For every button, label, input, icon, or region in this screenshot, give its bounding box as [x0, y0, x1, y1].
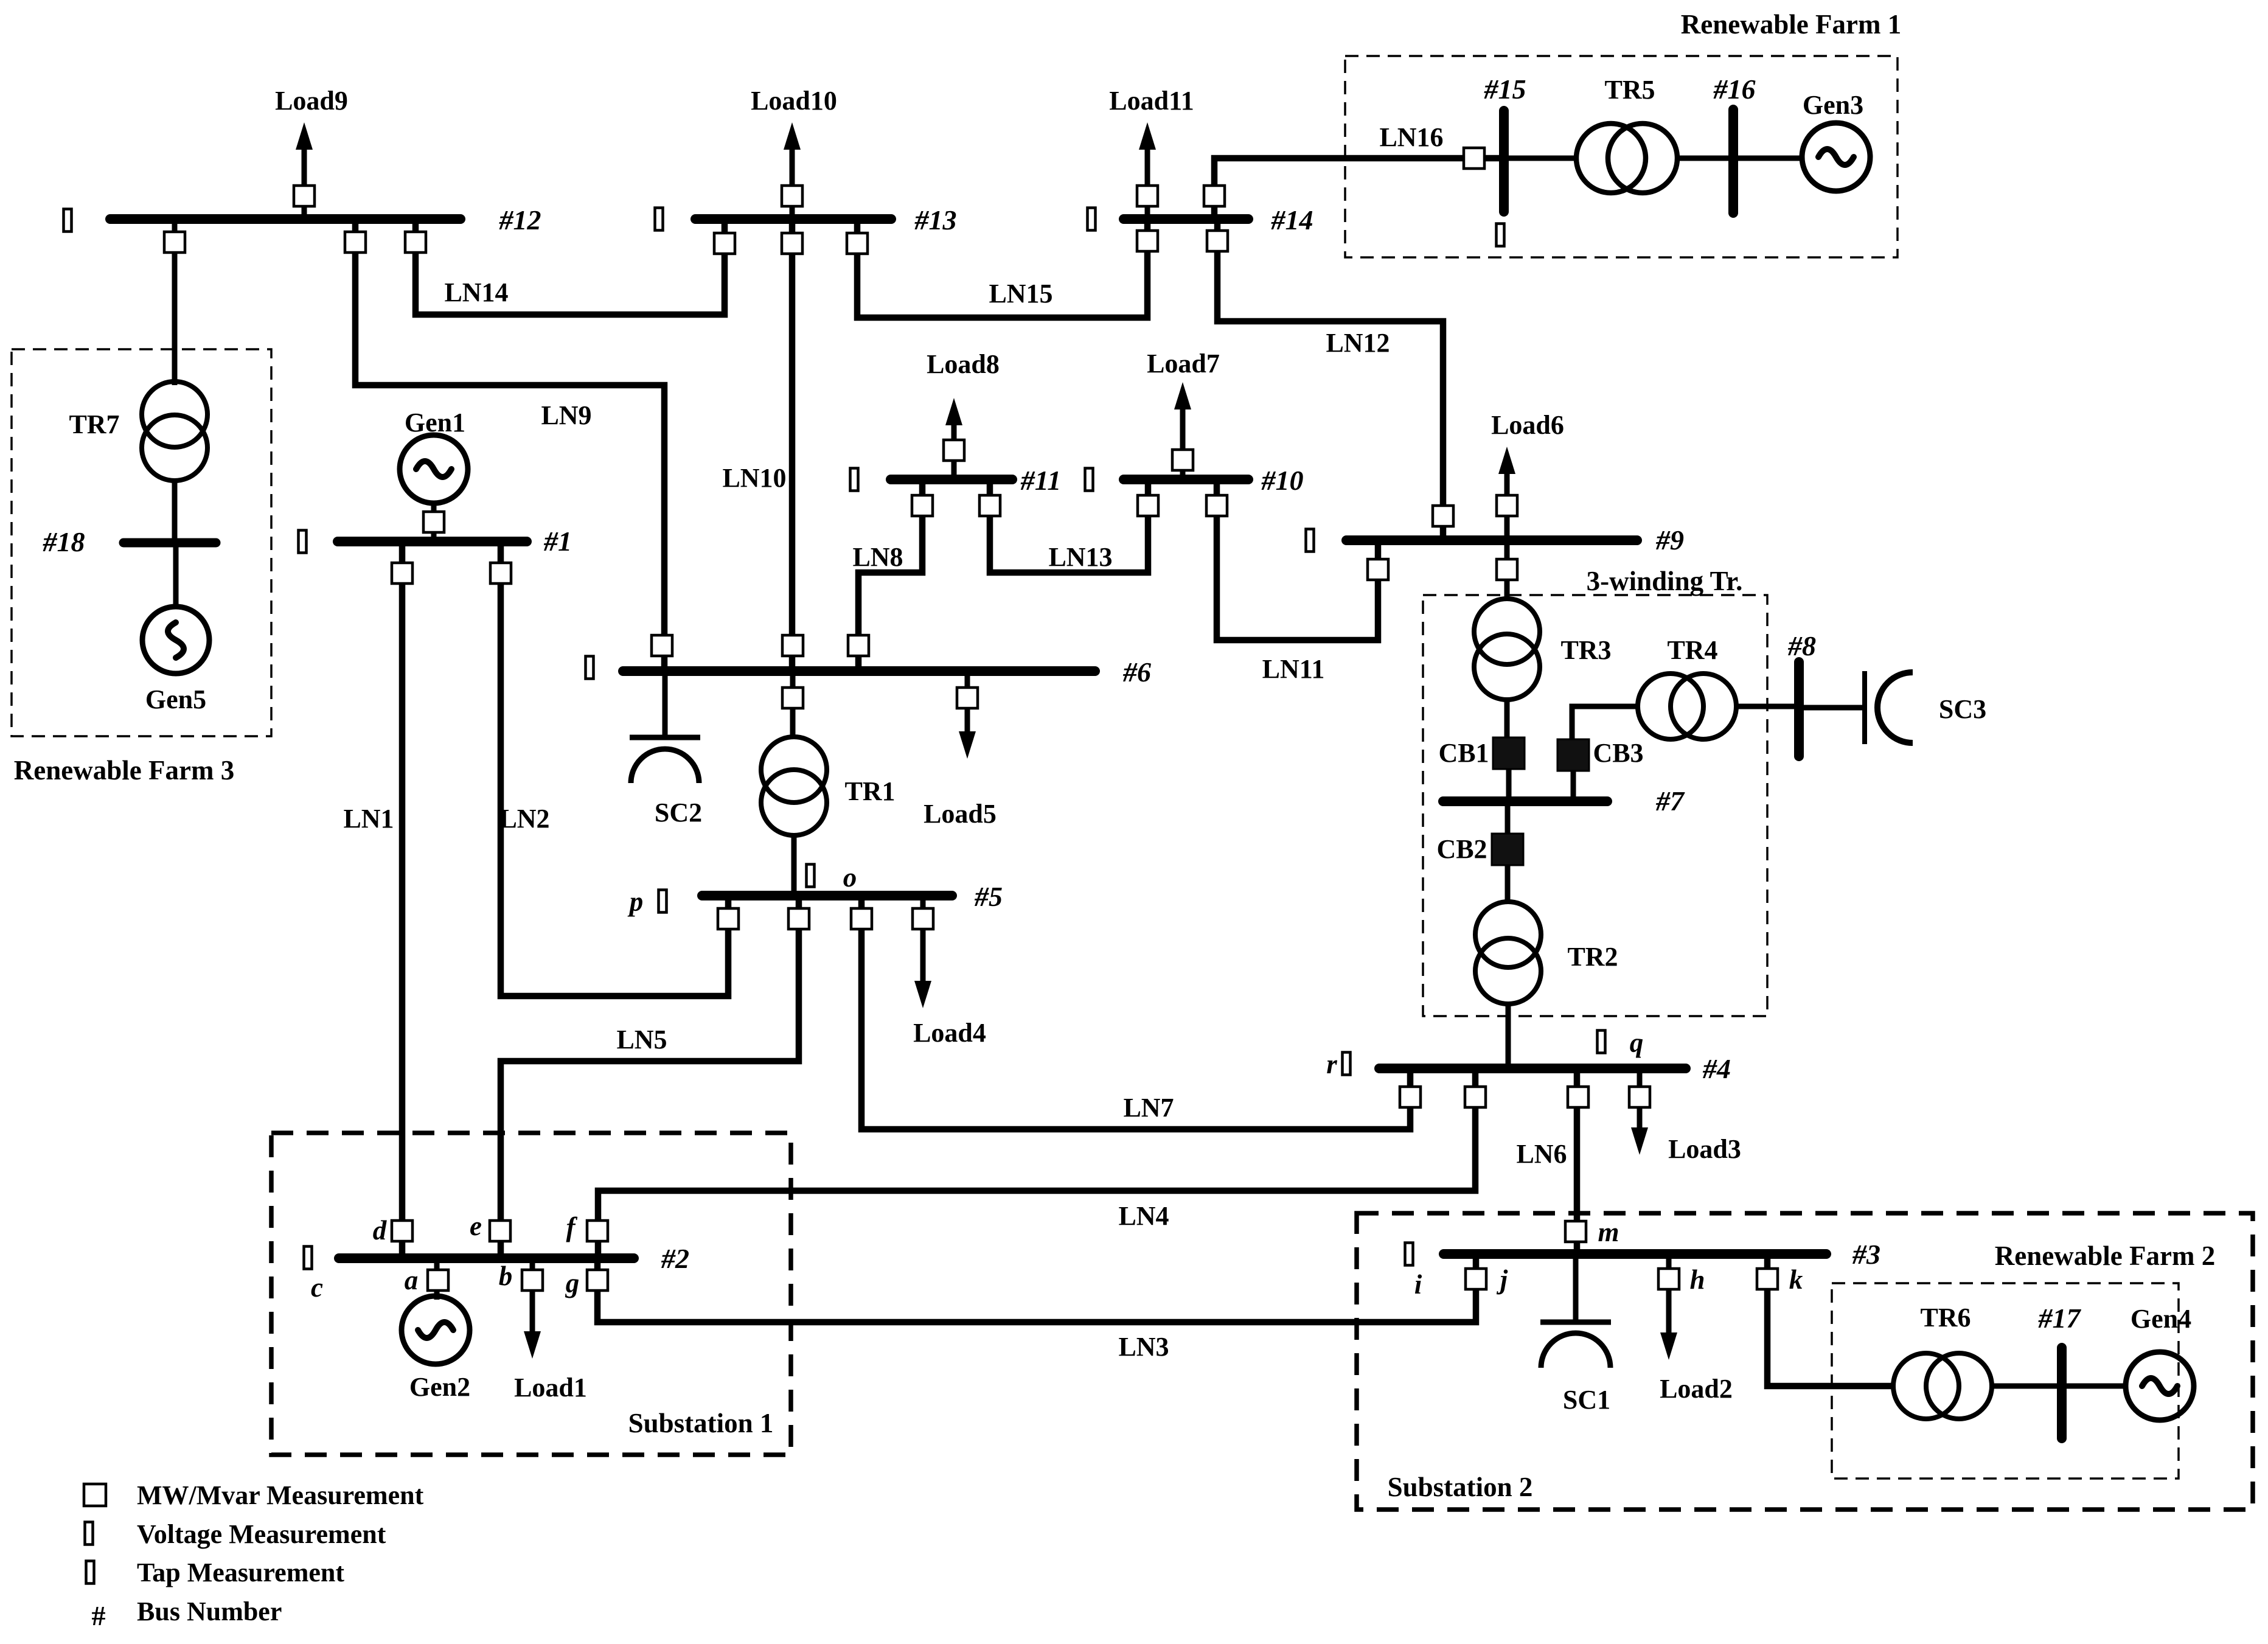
LN7 label — [1123, 1093, 1174, 1123]
circuit breaker CB2 — [1492, 834, 1523, 865]
wire bus17 to Gen4 — [2062, 1384, 2126, 1389]
bus #18 label — [43, 526, 85, 557]
SC1 label — [1563, 1385, 1610, 1415]
Renewable Farm 3 dashed box — [12, 349, 271, 736]
LN4 label — [1118, 1201, 1169, 1231]
wire bus9 to TR3 — [1504, 540, 1510, 601]
wire TR7 to bus 18 — [172, 481, 178, 543]
wire bus16 to Gen3 — [1733, 156, 1802, 161]
load Load2 arrow — [1660, 1254, 1677, 1360]
svg-text:Load3: Load3 — [1668, 1134, 1741, 1164]
MW/Mvar measurement k — [1757, 1269, 1778, 1289]
svg-text:Load4: Load4 — [913, 1018, 986, 1048]
transformer TR6 — [1893, 1353, 1992, 1419]
Load4 label — [913, 1018, 986, 1048]
wire TR5 to bus16 — [1676, 156, 1733, 161]
MW/Mvar measurement bus13 LN15 side — [847, 233, 868, 254]
node label m — [1598, 1217, 1619, 1247]
svg-text:LN1: LN1 — [343, 804, 394, 834]
svg-text:#2: #2 — [661, 1243, 689, 1274]
MW/Mvar measurement bus11 LN13 — [979, 495, 1000, 516]
wire TR1 to bus 5 — [791, 835, 797, 896]
svg-text:LN13: LN13 — [1048, 542, 1112, 572]
bus #4 — [1379, 1064, 1686, 1073]
LN9 label — [541, 400, 591, 430]
MW/Mvar measurement bus4 LN6 — [1568, 1087, 1588, 1107]
svg-text:g: g — [565, 1268, 580, 1298]
bus #7 — [1443, 796, 1607, 806]
node label q — [1630, 1028, 1644, 1058]
wire LN4 — [598, 1068, 1475, 1258]
generator Gen2 — [402, 1296, 470, 1364]
shunt capacitor SC2 — [630, 671, 700, 783]
svg-text:LN8: LN8 — [852, 542, 903, 572]
circuit breaker CB1 — [1493, 737, 1525, 769]
svg-text:Gen4: Gen4 — [2131, 1304, 2191, 1334]
bus #11 label — [1020, 465, 1061, 496]
wire LN2 — [501, 542, 728, 996]
wire Gen1 to square — [431, 502, 437, 542]
voltage measurement at bus 11 — [850, 468, 858, 491]
LN10 label — [722, 463, 786, 493]
MW/Mvar measurement bus13 LN14 side — [714, 233, 735, 254]
svg-text:r: r — [1326, 1049, 1337, 1079]
bus #17 (vertical) — [2057, 1348, 2067, 1438]
svg-text:CB3: CB3 — [1593, 738, 1643, 768]
CB1 label — [1438, 738, 1489, 768]
wire TR6 to bus 17 — [1992, 1384, 2062, 1389]
svg-text:TR6: TR6 — [1920, 1303, 1971, 1332]
bus #2 — [339, 1253, 634, 1263]
bus #12 — [110, 214, 461, 224]
wire k to TR6 — [1767, 1254, 1893, 1386]
svg-text:Substation 1: Substation 1 — [628, 1408, 774, 1438]
wire LN16 — [1214, 158, 1504, 219]
load Load1 arrow — [524, 1258, 541, 1359]
svg-text:h: h — [1689, 1264, 1705, 1295]
Renewable Farm 3 label — [14, 755, 234, 785]
node label d — [373, 1215, 388, 1245]
node label p — [627, 886, 644, 917]
svg-text:#14: #14 — [1271, 204, 1313, 235]
transformer TR7 — [142, 381, 207, 481]
Load7 label — [1147, 349, 1220, 378]
wire LN13 — [990, 479, 1148, 573]
legend bus number text — [137, 1597, 282, 1626]
svg-text:Load7: Load7 — [1147, 349, 1220, 378]
MW/Mvar measurement g — [587, 1270, 608, 1290]
MW/Mvar measurement e — [490, 1221, 510, 1241]
svg-text:Gen3: Gen3 — [1803, 90, 1863, 120]
MW/Mvar measurement b — [522, 1270, 543, 1290]
load Load6 arrow — [1498, 447, 1515, 540]
svg-text:CB2: CB2 — [1436, 834, 1487, 864]
legend voltage text — [137, 1519, 386, 1549]
svg-text:LN2: LN2 — [499, 804, 549, 834]
svg-text:Renewable Farm 1: Renewable Farm 1 — [1681, 9, 1901, 40]
bus #6 — [623, 666, 1095, 676]
svg-text:Load11: Load11 — [1109, 86, 1194, 116]
bus #6 label — [1122, 657, 1151, 688]
wire CB1 to bus 7 — [1506, 769, 1512, 801]
svg-text:LN7: LN7 — [1123, 1093, 1174, 1123]
bus #15 label — [1484, 74, 1526, 105]
LN16 label — [1379, 122, 1443, 152]
svg-text:#10: #10 — [1261, 465, 1304, 496]
MW/Mvar measurement bus9 3winding — [1497, 559, 1517, 580]
node label e — [470, 1211, 482, 1241]
wire LN12 — [1217, 219, 1443, 540]
MW/Mvar measurement bus10 LN11 — [1206, 495, 1227, 516]
generator Gen5 — [142, 607, 209, 674]
3-winding Tr. label — [1587, 566, 1743, 596]
bus #13 label — [914, 204, 957, 235]
load Load7 arrow — [1174, 382, 1191, 479]
MW/Mvar measurement bus13 LN10 — [782, 233, 802, 254]
svg-text:SC3: SC3 — [1939, 694, 1986, 724]
LN14 label — [444, 277, 508, 307]
LN2 label — [499, 804, 549, 834]
svg-text:p: p — [627, 886, 644, 917]
bus #8 (vertical) — [1794, 662, 1804, 756]
shunt capacitor SC1 — [1540, 1254, 1611, 1368]
transformer TR3 — [1474, 599, 1540, 700]
svg-text:Voltage Measurement: Voltage Measurement — [137, 1519, 386, 1549]
node label g — [565, 1268, 580, 1298]
MW/Mvar measurement on Load11 — [1137, 186, 1158, 206]
tap measurement below bus 15 — [1497, 224, 1504, 246]
legend bus number symbol — [92, 1600, 106, 1631]
MW/Mvar measurement bus6 LN9 — [652, 635, 672, 656]
bus #16 label — [1713, 74, 1756, 105]
TR1 label — [844, 776, 895, 806]
3-winding Tr. dashed box — [1423, 595, 1767, 1016]
svg-text:#16: #16 — [1713, 74, 1756, 105]
wire bus18 to Gen5 — [173, 543, 179, 607]
svg-text:LN10: LN10 — [722, 463, 786, 493]
svg-text:q: q — [1630, 1028, 1644, 1058]
LN3 label — [1118, 1332, 1169, 1362]
svg-text:#: # — [92, 1600, 106, 1631]
legend tap rect symbol — [86, 1561, 94, 1584]
svg-text:TR4: TR4 — [1667, 635, 1717, 665]
wire LN8 — [858, 479, 922, 671]
wire CB2 to TR2 — [1505, 865, 1511, 902]
LN12 label — [1326, 328, 1390, 358]
voltage measurement at bus 12 — [64, 209, 72, 232]
node label f — [566, 1212, 578, 1242]
bus #8 label — [1787, 630, 1816, 661]
svg-text:TR7: TR7 — [69, 409, 119, 439]
Load9 label — [275, 86, 348, 116]
Load3 label — [1668, 1134, 1741, 1164]
svg-text:#5: #5 — [974, 881, 1003, 912]
MW/Mvar measurement on Load9 — [294, 186, 315, 206]
MW/Mvar measurement bus5 LN5 — [788, 908, 809, 929]
svg-text:LN9: LN9 — [541, 400, 591, 430]
wire TR4 to CB3 — [1572, 706, 1638, 739]
MW/Mvar measurement on LN16 — [1464, 148, 1484, 169]
bus #12 label — [499, 204, 541, 235]
wire LN14 — [416, 219, 725, 315]
MW/Mvar measurement bus5 LN2 — [718, 908, 739, 929]
transformer TR1 — [761, 737, 827, 835]
load Load11 arrow — [1139, 122, 1156, 219]
tap measurement at TR1 bus5 — [807, 865, 815, 887]
svg-text:#4: #4 — [1702, 1053, 1731, 1084]
svg-text:3-winding Tr.: 3-winding Tr. — [1587, 566, 1743, 596]
node label c — [311, 1272, 323, 1303]
bus #5 label — [974, 881, 1003, 912]
svg-text:Bus Number: Bus Number — [137, 1597, 282, 1626]
svg-text:#17: #17 — [2038, 1303, 2082, 1334]
wire LN10 — [789, 219, 796, 671]
svg-text:#9: #9 — [1655, 524, 1684, 556]
MW/Mvar measurement on Load10 — [782, 186, 802, 206]
TR6 label — [1920, 1303, 1971, 1332]
TR5 label — [1604, 75, 1655, 105]
wire LN3 — [597, 1254, 1476, 1322]
generator Gen4 — [2126, 1352, 2194, 1420]
svg-text:#8: #8 — [1787, 630, 1816, 661]
wire TR2 to bus 4 — [1506, 1004, 1511, 1068]
wire LN9 — [355, 219, 664, 671]
svg-text:Load10: Load10 — [751, 86, 837, 116]
voltage measurement at bus 14 — [1088, 208, 1096, 231]
bus #18 — [123, 538, 216, 548]
Load10 label — [751, 86, 837, 116]
MW/Mvar measurement bus6 LN8 — [848, 635, 869, 656]
node label k — [1789, 1264, 1803, 1295]
bus #16 (vertical) — [1728, 110, 1738, 213]
shunt capacitor SC3 — [1799, 671, 1913, 744]
svg-text:LN3: LN3 — [1118, 1332, 1169, 1362]
node label r — [1326, 1049, 1337, 1079]
generator Gen3 — [1802, 123, 1870, 191]
CB3 label — [1593, 738, 1643, 768]
legend MW/Mvar text — [137, 1480, 424, 1510]
svg-text:Load6: Load6 — [1491, 410, 1564, 440]
TR7 label — [69, 409, 119, 439]
svg-text:d: d — [373, 1215, 388, 1245]
wire LN1 — [399, 542, 406, 1258]
TR3 label — [1560, 635, 1611, 665]
tap measurement at TR2 bus4 — [1598, 1031, 1605, 1053]
node label i — [1414, 1269, 1422, 1300]
MW/Mvar measurement bus1 LN2 — [490, 563, 511, 583]
svg-text:#1: #1 — [543, 526, 572, 557]
legend tap text — [137, 1558, 344, 1587]
MW/Mvar measurement bus1 LN1 — [392, 563, 412, 583]
Renewable Farm 2 dashed box — [1832, 1283, 2179, 1479]
MW/Mvar measurement bus12 LN9 — [345, 232, 366, 253]
bus #4 label — [1702, 1053, 1731, 1084]
legend MW/Mvar square symbol — [84, 1484, 106, 1506]
svg-text:i: i — [1414, 1269, 1422, 1300]
LN11 label — [1262, 654, 1325, 684]
LN15 label — [989, 279, 1052, 308]
LN8 label — [852, 542, 903, 572]
voltage measurement at bus 1 — [299, 531, 307, 553]
Gen5 label — [145, 684, 206, 714]
svg-text:LN12: LN12 — [1326, 328, 1390, 358]
svg-text:#12: #12 — [499, 204, 541, 235]
bus #7 label — [1655, 785, 1685, 817]
wire bus15 to TR5 — [1504, 156, 1578, 161]
MW/Mvar measurement m — [1565, 1221, 1586, 1242]
load Load4 arrow — [914, 896, 931, 1008]
svg-text:Renewable Farm 2: Renewable Farm 2 — [1995, 1241, 2215, 1271]
CB2 label — [1436, 834, 1487, 864]
bus #3 label — [1852, 1239, 1880, 1270]
bus #10 label — [1261, 465, 1304, 496]
MW/Mvar measurement h — [1658, 1269, 1679, 1289]
load Load8 arrow — [945, 398, 962, 479]
load Load5 arrow — [959, 671, 976, 759]
MW/Mvar measurement bus6 TR1 — [782, 688, 803, 708]
Substation 1 label — [628, 1408, 774, 1438]
svg-text:c: c — [311, 1272, 323, 1303]
MW/Mvar measurement Gen1 — [423, 512, 444, 532]
Gen2 label — [409, 1372, 470, 1402]
bus #11 — [891, 475, 1012, 484]
wire bus 12 to TR7 — [172, 219, 178, 385]
LN6 label — [1516, 1139, 1567, 1169]
svg-text:TR5: TR5 — [1604, 75, 1655, 105]
svg-text:b: b — [499, 1261, 513, 1291]
svg-text:LN4: LN4 — [1118, 1201, 1169, 1231]
bus #1 — [338, 537, 527, 546]
Renewable Farm 1 label — [1681, 9, 1901, 40]
MW/Mvar measurement bus11 LN8 — [912, 495, 933, 516]
svg-text:LN16: LN16 — [1379, 122, 1443, 152]
Load8 label — [927, 349, 1000, 379]
MW/Mvar measurement bus9 LN11 — [1368, 559, 1388, 580]
bus #15 (vertical) — [1499, 111, 1509, 212]
transformer TR2 — [1475, 902, 1541, 1004]
wire LN7 — [861, 896, 1410, 1129]
bus #2 label — [661, 1243, 689, 1274]
LN5 label — [616, 1025, 667, 1054]
load Load3 arrow — [1631, 1068, 1648, 1155]
MW/Mvar measurement a — [428, 1270, 448, 1290]
svg-text:Gen5: Gen5 — [145, 684, 206, 714]
MW/Mvar measurement bus12 to TR7 — [164, 232, 185, 253]
MW/Mvar measurement bus12 LN14 — [405, 232, 426, 253]
MW/Mvar measurement bus6 Load5 — [957, 688, 978, 708]
TR2 label — [1567, 942, 1618, 972]
svg-text:m: m — [1598, 1217, 1619, 1247]
voltage measurement at bus 9 — [1306, 529, 1314, 552]
MW/Mvar measurement d — [392, 1221, 412, 1241]
svg-text:o: o — [843, 862, 857, 893]
svg-text:LN14: LN14 — [444, 277, 508, 307]
bus #9 — [1346, 535, 1637, 545]
Renewable Farm 1 dashed box — [1345, 56, 1898, 257]
transformer TR5 — [1576, 124, 1677, 193]
voltage measurement at bus 10 — [1085, 468, 1093, 491]
Substation 1 dashed box — [271, 1133, 791, 1455]
svg-text:TR1: TR1 — [844, 776, 895, 806]
SC3 label — [1939, 694, 1986, 724]
bus #13 — [695, 214, 891, 224]
svg-text:Renewable Farm 3: Renewable Farm 3 — [14, 755, 234, 785]
TR4 label — [1667, 635, 1717, 665]
MW/Mvar measurement bus5 LN7 — [851, 908, 872, 929]
svg-text:#11: #11 — [1020, 465, 1061, 496]
svg-text:TR2: TR2 — [1567, 942, 1618, 972]
Load11 label — [1109, 86, 1194, 116]
circuit breaker CB3 — [1557, 739, 1589, 771]
MW/Mvar measurement Load6 — [1497, 495, 1517, 516]
wire TR1 top — [790, 671, 796, 737]
svg-text:TR3: TR3 — [1560, 635, 1611, 665]
Gen1 label — [405, 408, 465, 437]
Load5 label — [924, 799, 997, 829]
svg-text:Load9: Load9 — [275, 86, 348, 116]
Gen4 label — [2131, 1304, 2191, 1334]
svg-text:Gen1: Gen1 — [405, 408, 465, 437]
svg-text:Gen2: Gen2 — [409, 1372, 470, 1402]
svg-text:LN5: LN5 — [616, 1025, 667, 1054]
voltage measurement at bus 2 — [304, 1247, 312, 1269]
wire TR4 to bus 8 — [1736, 704, 1799, 709]
wire bus2 to Gen2 — [434, 1258, 440, 1300]
svg-text:k: k — [1789, 1264, 1803, 1295]
svg-text:a: a — [405, 1265, 419, 1295]
node label j — [1497, 1264, 1508, 1295]
Load2 label — [1660, 1374, 1733, 1404]
svg-text:MW/Mvar Measurement: MW/Mvar Measurement — [137, 1480, 424, 1510]
svg-text:Load1: Load1 — [514, 1373, 587, 1402]
Substation 2 dashed box — [1357, 1213, 2253, 1510]
voltage measurement at bus 5 — [659, 890, 667, 913]
wire LN6 — [1574, 1068, 1581, 1254]
bus #5 — [702, 891, 952, 900]
LN1 label — [343, 804, 394, 834]
voltage measurement at bus 13 — [655, 208, 663, 231]
node label b — [499, 1261, 513, 1291]
svg-text:SC1: SC1 — [1563, 1385, 1610, 1415]
MW/Mvar measurement bus5 Load4 — [913, 908, 933, 929]
svg-text:LN6: LN6 — [1516, 1139, 1567, 1169]
wire LN11 — [1217, 479, 1378, 640]
MW/Mvar measurement bus14 LN16 — [1204, 186, 1225, 206]
MW/Mvar measurement Load8 — [944, 440, 964, 461]
wire TR3 to CB1 — [1504, 700, 1510, 737]
svg-text:#6: #6 — [1122, 657, 1151, 688]
MW/Mvar measurement bus10 LN13 — [1138, 495, 1158, 516]
MW/Mvar measurement f — [587, 1221, 608, 1241]
bus #14 label — [1271, 204, 1313, 235]
bus #9 label — [1655, 524, 1684, 556]
SC2 label — [655, 798, 702, 827]
svg-text:LN11: LN11 — [1262, 654, 1325, 684]
wire bus7 to CB2 — [1505, 806, 1511, 834]
load Load10 arrow — [784, 122, 801, 219]
Load1 label — [514, 1373, 587, 1402]
svg-text:CB1: CB1 — [1438, 738, 1489, 768]
svg-text:e: e — [470, 1211, 482, 1241]
Substation 2 label — [1388, 1472, 1533, 1502]
MW/Mvar measurement bus6 LN10 — [782, 635, 803, 656]
wire CB3 to bus 7 — [1571, 771, 1576, 801]
svg-text:#7: #7 — [1655, 785, 1685, 817]
MW/Mvar measurement Load7 — [1172, 450, 1193, 470]
voltage measurement at bus 4 — [1343, 1053, 1351, 1075]
svg-text:Load8: Load8 — [927, 349, 1000, 379]
svg-text:#18: #18 — [43, 526, 85, 557]
